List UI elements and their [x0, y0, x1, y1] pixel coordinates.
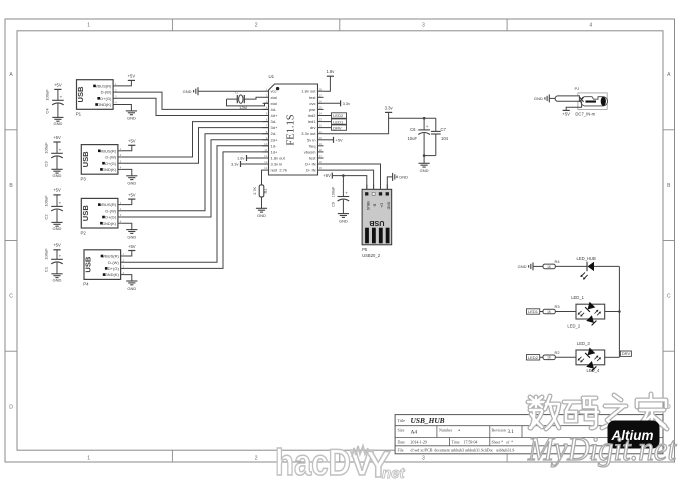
svg-text:net: net: [382, 465, 406, 481]
svg-text:D-(W): D-(W): [108, 260, 119, 265]
svg-text:13: 13: [264, 160, 268, 164]
net label LED1: [527, 309, 544, 314]
svg-text:+5V: +5V: [336, 137, 344, 142]
svg-text:2.7K: 2.7K: [253, 187, 257, 195]
usb port connector P4: [83, 250, 124, 287]
svg-text:+: +: [60, 94, 63, 99]
svg-text:R2: R2: [554, 350, 560, 355]
svg-text:3.3v: 3.3v: [231, 162, 239, 167]
svg-text:21: 21: [319, 130, 323, 134]
svg-text:D+(G): D+(G): [108, 266, 120, 271]
svg-text:GND: GND: [53, 121, 62, 126]
svg-text:Y2: Y2: [234, 91, 238, 95]
dc power jack PJ: [555, 86, 608, 110]
svg-text:15: 15: [319, 166, 323, 170]
svg-text:1d-: 1d-: [271, 143, 277, 148]
svg-text:C: C: [9, 294, 13, 300]
svg-text:11: 11: [264, 148, 267, 152]
svg-text:PJ: PJ: [575, 86, 580, 91]
ground right of P5: [393, 173, 409, 181]
svg-text:P3: P3: [81, 177, 87, 182]
svg-text:USB_HUB: USB_HUB: [411, 416, 445, 425]
svg-text:C9: C9: [332, 202, 336, 207]
svg-text:D+(G): D+(G): [105, 215, 117, 220]
svg-text:26: 26: [319, 99, 323, 103]
ground at P1: [117, 105, 137, 121]
svg-text:d:\wd xc\PCB document usbhub3: d:\wd xc\PCB document usbhub3 usbhub31.S…: [411, 448, 515, 452]
svg-text:GND: GND: [127, 286, 136, 291]
wire U1 D+ IN to P5 pin 3: [324, 164, 381, 189]
svg-text:Title: Title: [398, 418, 406, 423]
svg-text:D-(W): D-(W): [101, 90, 112, 95]
wire P1 D- to 4d-: [117, 92, 269, 109]
node junction at C6 top: [423, 117, 426, 120]
ground at LED_HUB row: [518, 262, 543, 270]
svg-text:GND: GND: [183, 89, 192, 94]
svg-text:LED2: LED2: [528, 355, 539, 360]
node junction +5V / C9: [342, 174, 345, 177]
svg-text:+5V: +5V: [53, 135, 61, 140]
svg-text:3.3v out: 3.3v out: [301, 131, 316, 136]
svg-text:4d-: 4d-: [271, 107, 277, 112]
svg-text:ovc: ovc: [309, 101, 315, 106]
svg-text:3.3v in: 3.3v in: [271, 162, 283, 167]
wire P5 pin 4 to ground: [387, 177, 392, 189]
svg-text:VBUS(R): VBUS(R): [100, 148, 117, 153]
ground at P3: [122, 169, 138, 185]
svg-text:test: test: [309, 156, 316, 161]
svg-text:vbusm: vbusm: [304, 149, 316, 154]
svg-text:23: 23: [319, 118, 323, 122]
svg-text:test: test: [309, 95, 316, 100]
net label LED2 feed: [527, 355, 544, 360]
wire P3 D+ to 3d+: [122, 128, 269, 164]
svg-text:2: 2: [255, 456, 258, 462]
power port 1.8v at U1 pin 12: [237, 155, 263, 161]
svg-text:Size: Size: [398, 428, 405, 433]
svg-text:3.3v: 3.3v: [343, 101, 351, 106]
svg-text:GND: GND: [127, 181, 136, 186]
svg-text:R3: R3: [554, 304, 560, 309]
wire 3.3v out rail: [324, 112, 436, 133]
svg-text:C6: C6: [410, 127, 416, 132]
power port 1.8v above U1 pin 28: [324, 69, 336, 91]
svg-text:Number: Number: [439, 428, 453, 433]
svg-text:P4: P4: [83, 282, 89, 287]
svg-text:GND: GND: [53, 226, 62, 231]
svg-text:GND(K): GND(K): [102, 167, 117, 172]
wire P4 D+ to 1d+: [125, 152, 269, 269]
svg-text:vcc: vcc: [271, 89, 277, 94]
USB socket P5 USB20_2: [362, 185, 392, 258]
crystal Y2 12M: [227, 91, 269, 110]
ground at U1 pin 1: [183, 87, 263, 95]
svg-text:D+ IN: D+ IN: [305, 162, 315, 167]
+5V power port at P4: [125, 244, 136, 256]
svg-text:C7: C7: [441, 127, 447, 132]
svg-text:GND: GND: [518, 264, 527, 269]
svg-text:LED_3: LED_3: [577, 341, 590, 346]
svg-text:led2: led2: [308, 113, 316, 118]
watermark hacDIY.net: [275, 442, 406, 481]
svg-text:17:59:04: 17:59:04: [464, 440, 478, 444]
svg-text:USB: USB: [81, 151, 90, 168]
svg-text:3: 3: [422, 23, 425, 29]
svg-text:100uF: 100uF: [44, 248, 49, 260]
svg-text:3d-: 3d-: [271, 119, 277, 124]
svg-text:GND: GND: [127, 234, 136, 239]
svg-text:1: 1: [87, 23, 90, 29]
capacitor C1: [44, 243, 63, 283]
capacitor C9 100uF: [332, 176, 350, 214]
svg-text:27: 27: [319, 93, 323, 97]
svg-text:14: 14: [264, 166, 268, 170]
ground below C9: [338, 214, 349, 224]
+5V power port at P3: [122, 139, 136, 151]
svg-text:+5V: +5V: [562, 112, 570, 117]
svg-text:hacD: hacD: [275, 442, 351, 481]
svg-text:R4: R4: [554, 259, 560, 264]
svg-text:led1: led1: [308, 119, 316, 124]
svg-text:+: +: [426, 124, 429, 129]
svg-text:12: 12: [264, 154, 268, 158]
net label LED1 at U1 pin 23: [324, 119, 347, 124]
svg-text:100uF: 100uF: [44, 195, 49, 207]
svg-text:1d+: 1d+: [271, 149, 278, 154]
svg-text:USB: USB: [84, 256, 93, 273]
svg-text:xtal: xtal: [271, 101, 277, 106]
svg-text:GND: GND: [399, 175, 408, 180]
+5V power port at P2: [122, 192, 136, 204]
svg-text:Time: Time: [452, 440, 460, 444]
svg-text:Revision: Revision: [492, 428, 506, 433]
svg-text:C4: C4: [44, 108, 49, 114]
svg-text:+5V: +5V: [128, 192, 136, 197]
svg-text:2d+: 2d+: [271, 137, 278, 142]
svg-text:4: 4: [589, 23, 592, 29]
ground below R1: [256, 208, 267, 218]
dual LED LED_3 / LED_4: [576, 341, 619, 373]
title block: [395, 415, 663, 454]
capacitor C4: [44, 83, 63, 127]
svg-text:DRV: DRV: [333, 125, 342, 130]
svg-text:5v in: 5v in: [307, 137, 315, 142]
svg-text:FE1.1S: FE1.1S: [286, 114, 297, 145]
ground at P2: [122, 223, 138, 239]
svg-text:D- IN: D- IN: [306, 168, 315, 173]
svg-text:rest 2.7k: rest 2.7k: [271, 168, 287, 173]
svg-text:pwr: pwr: [309, 107, 316, 112]
svg-text:+5V: +5V: [128, 139, 136, 144]
power port +5V at U1 pin 20: [324, 137, 344, 143]
svg-text:VBUS(R): VBUS(R): [102, 254, 119, 259]
svg-text:1: 1: [87, 456, 90, 462]
capacitor C2: [44, 188, 63, 231]
svg-text:USB: USB: [81, 205, 90, 222]
svg-text:LED_HUB: LED_HUB: [577, 256, 597, 261]
svg-text:1.8v out: 1.8v out: [301, 89, 316, 94]
svg-text:GND: GND: [53, 278, 62, 283]
svg-text:12M: 12M: [239, 105, 247, 110]
svg-text:P2: P2: [81, 230, 87, 235]
svg-text:+5V: +5V: [53, 188, 61, 193]
svg-text:20: 20: [319, 136, 323, 140]
Altium logo: [608, 421, 660, 449]
svg-text:LED_1: LED_1: [571, 295, 584, 300]
svg-text:4d+: 4d+: [271, 113, 278, 118]
ground at dc jack: [534, 94, 555, 102]
svg-text:+5V: +5V: [53, 243, 61, 248]
resistor R2 1K: [543, 350, 576, 360]
svg-text:xtal: xtal: [271, 95, 277, 100]
svg-text:Sheet *: Sheet *: [492, 440, 504, 444]
svg-text:10: 10: [264, 142, 268, 146]
wire DRV bus: [619, 266, 631, 357]
resistor R3 1K: [543, 304, 576, 314]
svg-text:3.1: 3.1: [508, 430, 515, 435]
svg-text:+: +: [59, 253, 62, 258]
net label LED2 at U1 pin 24: [324, 113, 347, 118]
svg-text:VBUS(R): VBUS(R): [100, 202, 117, 207]
svg-text:100uF: 100uF: [332, 186, 336, 197]
capacitor C6 10uF: [407, 118, 429, 155]
svg-text:100uF: 100uF: [44, 142, 49, 154]
svg-text:D: D: [9, 404, 13, 410]
svg-text:100uF: 100uF: [44, 89, 49, 101]
svg-text:C: C: [667, 294, 671, 300]
svg-text:D-(W): D-(W): [105, 155, 116, 160]
svg-text:2d-: 2d-: [271, 131, 277, 136]
svg-text:LED1: LED1: [528, 309, 539, 314]
svg-text:GND: GND: [534, 96, 543, 101]
svg-text:USB: USB: [369, 219, 384, 228]
capacitor C7 104: [431, 118, 449, 155]
svg-text:DC7_IN-m: DC7_IN-m: [575, 112, 595, 117]
svg-text:GND: GND: [420, 168, 429, 173]
svg-text:drv: drv: [310, 125, 316, 130]
svg-text:22: 22: [319, 124, 323, 128]
svg-text:+5V: +5V: [128, 74, 136, 79]
IC U1 FE1.1S hub controller: [263, 74, 324, 175]
wire P3 D- to 3d-: [122, 122, 269, 157]
svg-text:1.8v: 1.8v: [237, 156, 245, 161]
svg-text:+5V: +5V: [323, 173, 331, 178]
svg-text:3: 3: [422, 456, 425, 462]
+5V power port at P1: [117, 74, 135, 86]
svg-text:C1: C1: [44, 266, 49, 272]
svg-text:17: 17: [319, 154, 323, 158]
svg-text:D+: D+: [380, 203, 384, 207]
svg-text:D+(G): D+(G): [105, 161, 117, 166]
wire cap bottom rail: [423, 154, 436, 157]
usb port connector P1: [76, 80, 117, 117]
wire P1 D+ to 4d+: [117, 98, 269, 115]
watermark MyDigit.net: [527, 431, 677, 468]
svg-text:28: 28: [319, 87, 323, 91]
svg-text:D-: D-: [373, 204, 377, 208]
svg-text:C2: C2: [44, 214, 49, 220]
svg-text:GND(K): GND(K): [105, 272, 120, 277]
svg-text:GND: GND: [386, 202, 390, 210]
svg-text:VBUS: VBUS: [366, 201, 370, 211]
svg-text:D+(G): D+(G): [100, 96, 112, 101]
svg-text:C3: C3: [44, 161, 49, 167]
wire U1 D- IN to P5 pin 2: [324, 170, 374, 189]
svg-text:R1: R1: [264, 188, 268, 193]
svg-text:16: 16: [319, 160, 323, 164]
svg-text:104: 104: [441, 136, 449, 141]
svg-text:GND: GND: [257, 213, 266, 218]
svg-text:GND(K): GND(K): [102, 221, 117, 226]
capacitor C3: [44, 135, 63, 178]
ground at P4: [125, 275, 138, 291]
svg-text:DRV: DRV: [622, 351, 631, 356]
ground below C6: [419, 156, 430, 174]
LED LED_HUB: [577, 256, 620, 279]
svg-text:GND(K): GND(K): [97, 102, 112, 107]
svg-text:USB20_2: USB20_2: [362, 253, 381, 258]
svg-text:3.3v: 3.3v: [385, 106, 394, 111]
svg-text:freq: freq: [309, 143, 316, 148]
net label DRV at U1 pin 22: [324, 125, 347, 130]
svg-text:GND: GND: [339, 218, 348, 223]
svg-text:of *: of *: [506, 440, 513, 444]
svg-text:+5V: +5V: [128, 244, 136, 249]
svg-text:GND: GND: [127, 116, 136, 121]
wire P4 D- to 1d-: [125, 146, 269, 262]
power port 3.3v above rail: [385, 106, 394, 113]
svg-text:LED1: LED1: [333, 119, 344, 124]
svg-text:+: +: [59, 200, 62, 205]
power port +5V at dc jack: [562, 102, 581, 117]
svg-text:2014-1-29: 2014-1-29: [411, 440, 427, 444]
svg-text:3d+: 3d+: [271, 125, 278, 130]
power port 3.3v at U1 pin 26: [324, 100, 351, 106]
power port 3.3v at U1 pin 13: [231, 161, 263, 167]
svg-text:A4: A4: [411, 430, 418, 436]
svg-text:24: 24: [319, 112, 323, 116]
power port +5V at P5: [323, 173, 366, 190]
svg-text:2: 2: [255, 23, 258, 29]
svg-text:+5V: +5V: [54, 83, 62, 88]
svg-text:LED_2: LED_2: [567, 323, 580, 328]
watermark Chinese characters: [528, 394, 667, 429]
node junction bus row2: [618, 310, 621, 313]
svg-text:P1: P1: [76, 112, 82, 117]
svg-text:LED2: LED2: [333, 113, 344, 118]
svg-text:+: +: [345, 191, 348, 196]
resistor R4 1K: [543, 259, 587, 269]
resistor R1 2.7K: [253, 170, 268, 208]
wire P2 D+ to 2d+: [122, 140, 269, 217]
svg-text:10uF: 10uF: [407, 136, 417, 141]
svg-text:19: 19: [319, 142, 323, 146]
svg-text:P5: P5: [362, 247, 368, 252]
svg-text:25: 25: [319, 106, 323, 110]
svg-text:18: 18: [319, 148, 323, 152]
svg-text:1.8v out: 1.8v out: [271, 156, 286, 161]
svg-text:GND: GND: [53, 173, 62, 178]
svg-text:+: +: [59, 147, 62, 152]
svg-text:VBUS(R): VBUS(R): [95, 84, 112, 89]
wire P2 D- to 2d-: [122, 134, 269, 211]
dual LED LED_1 / LED_2: [567, 295, 619, 328]
svg-text:MyDigit.net: MyDigit.net: [527, 431, 677, 468]
svg-text:U1: U1: [269, 74, 275, 79]
svg-text:File: File: [398, 448, 404, 452]
usb port connector P3: [81, 145, 122, 182]
svg-text:D-(W): D-(W): [105, 208, 116, 213]
svg-text:Date: Date: [398, 440, 406, 444]
svg-text:USB: USB: [76, 86, 85, 103]
usb port connector P2: [81, 198, 122, 235]
svg-text:1.8v: 1.8v: [326, 69, 335, 74]
